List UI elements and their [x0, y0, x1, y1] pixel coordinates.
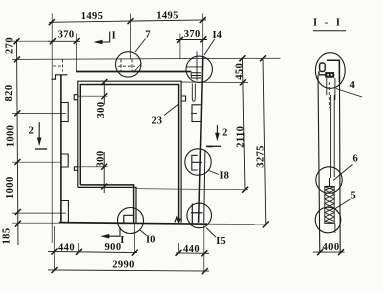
room right tab — [181, 96, 186, 101]
section marker 2 left — [38, 122, 40, 140]
svg-text:2: 2 — [222, 127, 227, 138]
left chain ticks — [14, 38, 21, 226]
svg-text:300: 300 — [95, 151, 106, 168]
svg-text:400: 400 — [323, 242, 340, 253]
dim 450/2110 vertical line — [242, 58, 245, 190]
dim 3275 vertical line — [263, 58, 266, 224]
svg-text:5: 5 — [351, 190, 356, 201]
detail circle 14 — [186, 56, 212, 82]
detail circle 15 — [187, 203, 212, 228]
ext y41.2 to 370 line — [12, 40, 54, 42]
svg-text:370: 370 — [184, 29, 201, 40]
section plate legs — [327, 78, 335, 100]
svg-text:185: 185 — [2, 228, 13, 245]
extension line x52 from top dims — [51, 14, 53, 60]
svg-text:23: 23 — [152, 116, 163, 127]
extension line x202.7 top right — [202, 14, 204, 57]
svg-text:820: 820 — [4, 85, 15, 102]
svg-text:450: 450 — [235, 63, 246, 80]
detail circle 18 — [185, 149, 211, 175]
gasket hatch — [325, 187, 334, 224]
label I5 leader — [206, 228, 216, 238]
gasket hatched rect — [325, 187, 334, 224]
svg-text:370: 370 — [58, 30, 75, 41]
bottom ext lines — [53, 226, 55, 271]
right wall second line — [204, 150, 205, 223]
svg-text:I8: I8 — [220, 171, 229, 182]
section marker I bottom — [104, 227, 120, 236]
circle 18 E-bracket — [192, 155, 202, 170]
circle 10 P-bracket — [124, 215, 134, 222]
circle 15 inner horizontal — [191, 212, 203, 214]
circle 15 inner vertical — [191, 204, 193, 225]
ticks on 450/2110 — [239, 55, 248, 192]
section marker 2 right — [216, 125, 218, 138]
detail circle 4 (ellipse) — [315, 53, 345, 89]
svg-text:1000: 1000 — [6, 125, 17, 148]
detail circle 7 — [116, 52, 141, 77]
left wall top step — [52, 75, 68, 79]
svg-text:270: 270 — [4, 37, 15, 54]
svg-text:300: 300 — [96, 102, 107, 119]
circle 14 inner horizontal — [186, 66, 203, 68]
section inner line a — [330, 95, 332, 178]
svg-text:3275: 3275 — [256, 145, 267, 168]
label I0 leader — [140, 230, 147, 236]
detail 4 bump — [320, 63, 326, 72]
top wall lower line — [76, 71, 191, 73]
dashed joint near top-left — [62, 60, 64, 72]
label 18 leader — [209, 171, 220, 175]
section inner line b — [333, 95, 335, 177]
ext y113.4 — [12, 112, 66, 114]
label 4 leader — [336, 89, 362, 98]
bottom chain ticks — [52, 249, 208, 257]
left wall panel — [60, 75, 62, 223]
right wall bracket — [192, 105, 201, 122]
top dimension line 1495+1495 — [49, 20, 206, 22]
circle 15 corner mark — [175, 217, 180, 222]
short line below gasket — [334, 224, 336, 234]
detail circle 5 — [315, 207, 341, 233]
extension line x130.5 — [129, 14, 131, 59]
wall joint U below circle 14 — [192, 84, 195, 102]
dim 300 lower — [103, 152, 105, 193]
extension line x76.7 for 370 — [76, 34, 78, 72]
section column right edge — [338, 60, 341, 252]
detail 4 box — [327, 60, 340, 82]
detail circle 6 — [316, 167, 342, 193]
tick above circle 18 — [207, 146, 213, 148]
svg-text:7: 7 — [145, 29, 150, 40]
svg-text:2110: 2110 — [236, 126, 247, 148]
svg-text:2990: 2990 — [112, 259, 135, 270]
inner room outer line — [78, 81, 181, 222]
svg-text:900: 900 — [105, 242, 122, 253]
left dimension chain line — [17, 40, 19, 246]
svg-text:I - I: I - I — [313, 18, 342, 29]
section column left edge — [318, 75, 320, 252]
dim 2990 line — [48, 270, 209, 271]
room left tab lower — [74, 167, 77, 171]
dim 300 upper: line and ticks — [103, 81, 105, 105]
detail circle 10 — [118, 208, 144, 234]
detail 4 left/bottom — [319, 71, 334, 75]
room left tab upper — [74, 95, 78, 100]
dim line 370 left — [48, 40, 80, 42]
svg-text:1495: 1495 — [81, 11, 104, 22]
svg-text:I: I — [112, 31, 116, 42]
left wall protrusion 3 — [61, 201, 69, 223]
bottom chain dim line right — [176, 252, 209, 254]
bracket mid tick — [191, 112, 197, 114]
section dashed centre — [328, 82, 330, 108]
ext y162.2 — [12, 161, 61, 163]
right wall panel — [199, 56, 203, 223]
left wall protrusion 1 — [61, 103, 68, 122]
joint step above gasket — [325, 178, 332, 186]
dim line 370 right — [176, 39, 207, 41]
dim 400 — [313, 251, 345, 253]
label 5 leader — [335, 199, 351, 209]
bottom wall ext to 3275 — [207, 223, 267, 225]
detail 4 weld plate — [325, 72, 334, 78]
svg-text:I5: I5 — [216, 236, 225, 247]
ext y213.1 — [12, 212, 66, 214]
extension line left vertical along wall — [51, 59, 53, 243]
ext y223.2 — [12, 222, 59, 224]
inner room inner line — [80, 85, 178, 223]
ext line y189 (2110 bottom) — [136, 189, 248, 190]
ext y59 long top line — [12, 58, 281, 59]
extension line x180 for 370 right — [179, 34, 181, 59]
circle 14 weld box — [191, 73, 201, 78]
svg-text:1000: 1000 — [5, 176, 16, 199]
bottom chain dim line left — [48, 251, 137, 252]
svg-text:4: 4 — [350, 80, 356, 91]
svg-text:2: 2 — [29, 126, 34, 137]
bottom wall line — [59, 223, 207, 225]
svg-text:I0: I0 — [146, 235, 155, 246]
label 6 leader — [333, 165, 353, 181]
svg-text:6: 6 — [353, 154, 358, 165]
svg-text:1495: 1495 — [156, 11, 179, 22]
circle 14 inner vertical — [196, 52, 198, 81]
circle 7 joint dashes — [121, 59, 132, 72]
section marker I top (arrow left) — [98, 32, 110, 43]
svg-text:440: 440 — [58, 242, 75, 253]
svg-text:440: 440 — [183, 244, 200, 255]
left wall protrusion 2 — [61, 154, 68, 167]
ext line y82.4 right (room top to 450 dim) — [181, 81, 248, 84]
